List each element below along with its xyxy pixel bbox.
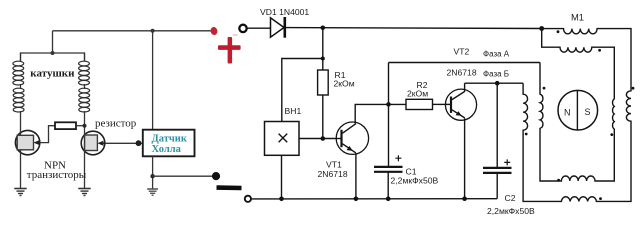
- wire: node A to R2: [389, 103, 407, 105]
- resistor (base coupling, резистор): [55, 122, 76, 129]
- terminal: open circle supply input: [239, 25, 246, 32]
- motor winding polarity dot (right inner): [610, 133, 613, 136]
- junction dot C1 ground: [386, 197, 391, 202]
- junction dot under hall box: [150, 174, 154, 178]
- wire: Q1 base to coupling resistor: [40, 126, 55, 143]
- node: red battery + terminal: [210, 26, 219, 35]
- svg-text:Холла: Холла: [152, 144, 182, 155]
- junction dot motor supply: [539, 26, 544, 31]
- junction dot resistor/right coil: [83, 124, 87, 128]
- svg-text:2кОм: 2кОм: [334, 79, 355, 89]
- wire: VT1 collector up to node A: [355, 104, 388, 123]
- svg-text:VT2: VT2: [454, 46, 470, 56]
- wire: coil header: [21, 53, 85, 61]
- ground (right transistor emitter): [78, 189, 90, 196]
- wire: left +rail to red terminal: [53, 30, 212, 32]
- svg-text:резистор: резистор: [95, 117, 137, 129]
- junction dot +rail / R1 branch: [321, 26, 326, 31]
- faint pink smudge: [233, 34, 238, 35]
- switch SA1: pole contact dot: [212, 172, 220, 180]
- wire: BH1 supply branch: [282, 59, 323, 122]
- svg-text:Датчик: Датчик: [152, 134, 188, 145]
- svg-text:N: N: [564, 107, 571, 117]
- motor M1: outer phase winding (4 coils): [523, 29, 631, 202]
- svg-text:Фаза Б: Фаза Б: [483, 70, 509, 79]
- motor winding polarity dot (left outer): [525, 133, 528, 136]
- svg-text:BH1: BH1: [285, 106, 302, 116]
- junction dot VT1 emitter: [354, 197, 359, 202]
- transistor VT2 (2N6718): [445, 89, 476, 120]
- junction dot VT2 emitter: [462, 196, 467, 201]
- diode VD1: [271, 17, 285, 38]
- svg-text:M1: M1: [571, 11, 584, 22]
- wire: R1 to VT1 base node: [322, 95, 324, 139]
- wire: resistor to right coil line: [76, 125, 85, 127]
- svg-text:2,2мкФх50В: 2,2мкФх50В: [487, 206, 535, 216]
- hall sensor box Датчик Холла: [143, 130, 195, 157]
- wire: BH1 ground pin: [281, 155, 283, 199]
- wire: R2 to VT2 base: [433, 103, 446, 105]
- transistor Q2 (right NPN): [81, 111, 105, 188]
- wire: node A riser to phase A rail: [388, 63, 390, 105]
- wire: hall sensor box to ground / switch node: [152, 156, 154, 188]
- wire: C2 top stub: [496, 83, 498, 168]
- battery polarity marker: red plus: [218, 37, 241, 64]
- wire: phase A rail: [389, 62, 541, 64]
- switch SA1: lever bar: [217, 185, 242, 190]
- wire: riser from coil header: [52, 31, 54, 53]
- junction dot BH1 supply tap: [321, 57, 325, 61]
- ground (left transistor emitter): [14, 189, 26, 196]
- junction dot hall tap: [151, 29, 155, 33]
- wire: VT1 emitter to ground rail: [355, 153, 357, 199]
- wire: ground rail: [251, 198, 497, 200]
- wire: terminal to diode: [247, 27, 271, 29]
- wire: Q2 base to hall sensor: [105, 142, 143, 144]
- wire: to switch: [153, 175, 213, 177]
- switch SA1: throw contact (open circle): [245, 196, 251, 202]
- svg-text:S: S: [585, 107, 591, 117]
- junction dot BH1 ground: [279, 197, 284, 202]
- svg-text:2,2мкФх50В: 2,2мкФх50В: [391, 176, 439, 186]
- motor winding polarity dot (left inner): [543, 87, 546, 90]
- wire: node A down to C1: [388, 104, 390, 166]
- node A junction dot (VT1 collector / R2 / C1 / phase A): [386, 102, 391, 107]
- wire: hall sensor supply drop: [152, 31, 154, 130]
- resistor R2: [406, 99, 433, 109]
- motor winding polarity dot (right outer): [632, 87, 635, 90]
- motor winding polarity dot (bottom outer): [599, 197, 602, 200]
- svg-text:2N6718: 2N6718: [318, 169, 348, 179]
- svg-text:VD1 1N4001: VD1 1N4001: [260, 7, 309, 17]
- resistor R1: [318, 70, 329, 95]
- motor winding polarity dot (bottom inner): [557, 179, 560, 182]
- transistor VT1 (2N6718): [336, 122, 368, 154]
- capacitor C1: [374, 155, 403, 199]
- wire: VT2 emitter down: [464, 118, 466, 199]
- inductor: left coil (катушка 1): [13, 53, 24, 112]
- junction dot R1/base: [321, 136, 326, 141]
- transistor Q1 (left NPN): [15, 111, 39, 188]
- motor winding polarity dot (top outer): [557, 30, 560, 33]
- hall sensor BH1 (box with X): [265, 122, 300, 156]
- junction dot coil header: [51, 51, 55, 55]
- wire: R1 branch down: [322, 28, 324, 70]
- wire: main +rail diode to motor: [286, 27, 542, 30]
- motor winding polarity dot (top inner): [598, 49, 601, 52]
- svg-text:катушки: катушки: [30, 67, 75, 79]
- svg-text:C2: C2: [505, 193, 516, 203]
- junction dot C2 tap: [495, 81, 500, 86]
- motor M1: inner phase winding (4 coils): [540, 29, 614, 181]
- svg-text:2кОм: 2кОм: [407, 88, 428, 98]
- wire: BH1 output to VT1 base: [299, 138, 336, 140]
- wire: phase B rail: [465, 82, 523, 84]
- capacitor C2: [483, 159, 512, 198]
- svg-text:транзисторы: транзисторы: [27, 169, 87, 181]
- svg-text:2N6718: 2N6718: [447, 67, 477, 77]
- motor M1 rotor (N-S magnet): [558, 90, 598, 130]
- wire: VT2 collector to phase B rail: [464, 83, 466, 91]
- inductor: right coil (катушка 2): [79, 53, 90, 112]
- junction dot at hall sensor input: [136, 140, 142, 146]
- ground (hall sensor): [147, 189, 158, 195]
- svg-text:Фаза А: Фаза А: [483, 49, 510, 58]
